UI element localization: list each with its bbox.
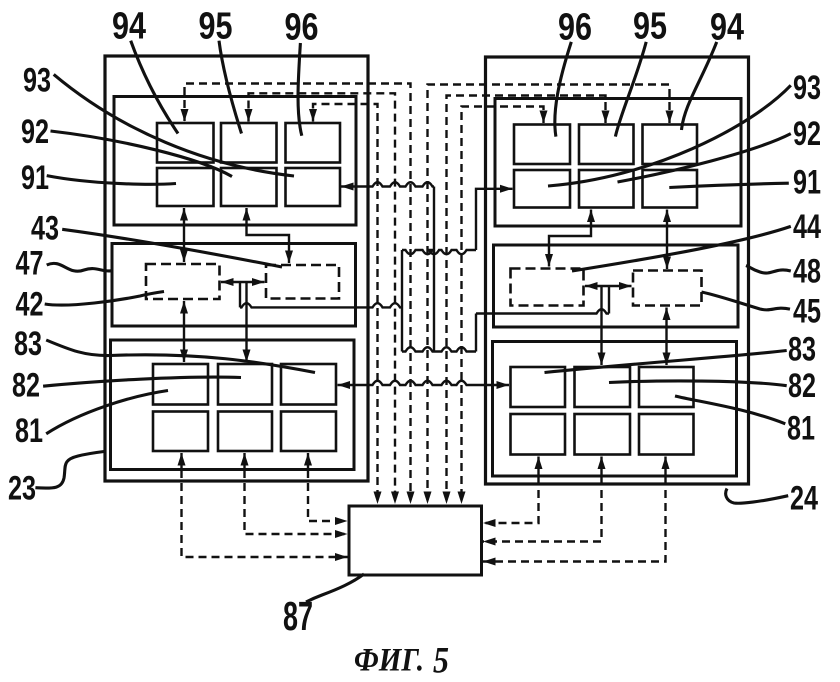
svg-text:82: 82 xyxy=(788,367,816,405)
svg-text:43: 43 xyxy=(31,210,59,248)
svg-text:23: 23 xyxy=(8,470,36,508)
svg-text:93: 93 xyxy=(793,69,821,107)
svg-text:93: 93 xyxy=(23,62,51,100)
svg-text:95: 95 xyxy=(199,6,233,48)
svg-text:24: 24 xyxy=(790,480,818,518)
svg-text:95: 95 xyxy=(633,6,667,48)
svg-text:92: 92 xyxy=(793,115,821,153)
svg-text:81: 81 xyxy=(787,410,815,448)
svg-text:82: 82 xyxy=(12,367,40,405)
svg-text:47: 47 xyxy=(16,245,44,283)
svg-text:ФИГ.: ФИГ. xyxy=(354,643,424,679)
svg-text:92: 92 xyxy=(21,113,49,151)
svg-text:91: 91 xyxy=(793,164,821,202)
svg-text:83: 83 xyxy=(14,325,42,363)
svg-text:96: 96 xyxy=(285,7,319,49)
svg-text:94: 94 xyxy=(710,7,744,49)
svg-text:5: 5 xyxy=(433,641,449,682)
svg-text:96: 96 xyxy=(558,7,592,49)
svg-text:81: 81 xyxy=(15,412,43,450)
svg-text:94: 94 xyxy=(112,6,146,48)
svg-text:45: 45 xyxy=(793,293,821,331)
svg-text:91: 91 xyxy=(21,159,49,197)
svg-text:44: 44 xyxy=(793,208,821,246)
svg-text:42: 42 xyxy=(16,286,44,324)
svg-text:83: 83 xyxy=(788,331,816,369)
svg-text:48: 48 xyxy=(793,253,821,291)
svg-text:87: 87 xyxy=(283,593,313,639)
